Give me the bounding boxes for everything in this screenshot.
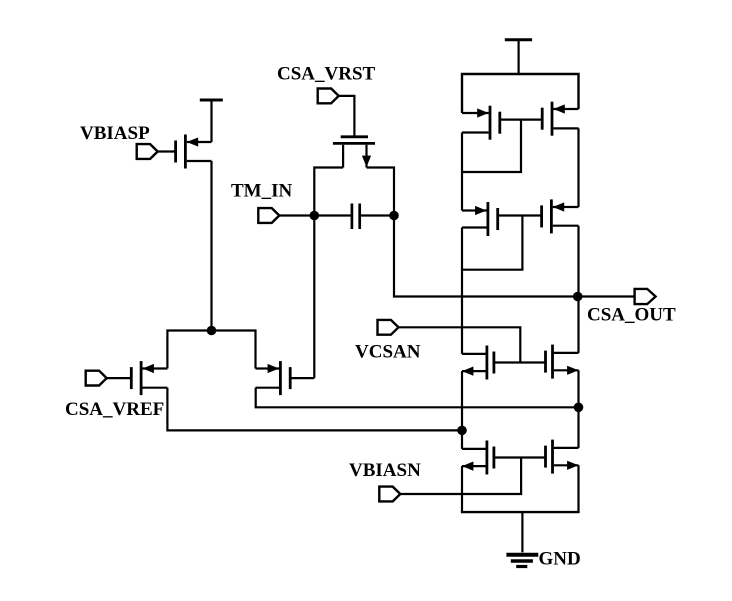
wire pair2 gates tied to M6 drain [462,216,542,270]
svg-text:CSA_VRST: CSA_VRST [277,64,376,85]
wire M3 drain to fold node B [256,388,579,408]
transistor M6 PMOS (cascode left, diode) [462,202,498,236]
wire feedback node down to CSA_OUT line [394,216,578,297]
wire: diff pair tail rail [167,331,255,369]
wire: ground rail [461,511,580,513]
port CSA_VRST [318,89,339,104]
svg-text:CSA_OUT: CSA_OUT [587,305,676,326]
wire M1 drain to tail node [210,161,212,331]
node: fold node B (M9 source / M11 drain) [574,403,584,413]
wire fold node A to M10 drain [461,430,463,449]
label CSA_OUT [587,305,676,326]
transistor M5 PMOS (mirror top-right) [542,102,578,136]
wire fold node B to M11 drain [577,407,579,448]
wire M5 drain column to M7 source [577,128,579,207]
wire VBIASN gate line [494,456,545,458]
transistor M1 PMOS (gate VBIASP) [158,135,212,169]
node: fold node A (M8 source / M10 drain) [457,426,467,436]
transistor M8 NMOS (cascode left, gate VCSAN) [462,346,494,380]
node: C1 right plate junction [389,211,399,221]
node CSA_OUT junction [573,292,583,302]
port VCSAN [378,320,399,335]
wire M10 source to ground rail [461,466,463,512]
port VBIASN [379,487,400,502]
port CSA_OUT [635,289,656,304]
transistor M12 NMOS reset switch (horizontal) [333,137,375,168]
wire M8 source down to fold node A [461,371,463,430]
port CSA_VREF [86,371,107,386]
label CSA_VRST [277,64,376,85]
svg-text:TM_IN: TM_IN [231,181,293,202]
wire M7 drain to CSA_OUT node [577,226,579,297]
wire VCSAN gate line [494,361,546,363]
transistor M2 PMOS (gate CSA_VREF, left of diff pair) [107,361,168,395]
label CSA_VREF [65,399,164,420]
wire M11 source to ground rail [577,465,579,512]
wire M2 drain to fold node A [167,388,462,431]
wire CSA_VRST port to M12 gate [339,96,355,137]
power VDD symbol (left) [200,100,223,142]
wire TM_IN port to node [279,214,314,216]
wire M3 gate up to TM_IN node [313,216,315,379]
transistor M4 PMOS (mirror top-left, diode) [462,106,500,140]
transistor M7 PMOS (cascode right) [542,199,579,233]
wire M12 left lead to TM_IN node [314,168,343,216]
label VBIASN [349,460,421,481]
transistor M10 NMOS (current sink left, gate VBIASN) [462,441,494,475]
transistor M3 PMOS (gate TM_IN, right of diff pair) [256,361,315,395]
node TM_IN junction [310,211,320,221]
transistor M11 NMOS (current sink right, gate VBIASN) [546,440,579,474]
wire CSA_OUT node to port [578,295,635,297]
svg-text:VBIASP: VBIASP [80,123,150,144]
svg-text:VBIASN: VBIASN [349,460,421,481]
wire: top supply rail [462,74,579,113]
wire VBIASN port to sink gates [400,458,521,495]
label VBIASP [80,123,150,144]
svg-text:VCSAN: VCSAN [355,342,421,363]
label GND [539,549,581,570]
wire M12 right lead to feedback node [367,168,395,216]
capacitor C1 (feedback) [314,204,394,230]
wire VCSAN port to cascode gates [399,327,521,362]
port VBIASP [137,144,158,159]
svg-text:CSA_VREF: CSA_VREF [65,399,164,420]
wire pair1 gates tied to M4 drain [462,120,542,172]
label TM_IN [231,181,293,202]
wire M4 drain column to M6 source [461,133,463,211]
transistor M9 NMOS (cascode right, gate VCSAN) [546,345,579,379]
power VDD symbol (right) [505,40,532,74]
node: diff-pair tail junction [207,326,217,336]
wire M9 source down to fold node B [577,370,579,407]
svg-text:GND: GND [539,549,581,570]
wire M6 drain column to M8 drain [461,228,463,354]
port TM_IN [258,208,279,223]
label VCSAN [355,342,421,363]
wire CSA_OUT node to M9 drain [577,297,579,353]
ground GND symbol [506,512,538,566]
